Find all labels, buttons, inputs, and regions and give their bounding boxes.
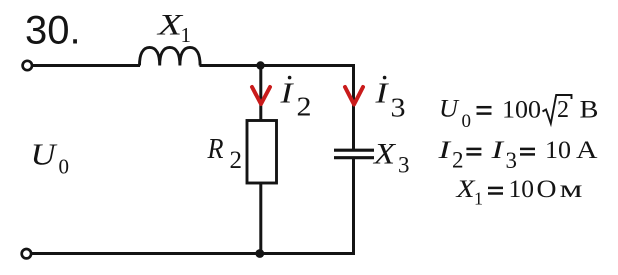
svg-text:I: I: [374, 78, 389, 110]
wire: node A down to resistor R2: [259, 66, 262, 122]
wire: resistor R2 to node B: [259, 183, 262, 254]
formula line 1: U0 = 100 sqrt(2) V: [439, 95, 599, 133]
capacitor X3 bottom plate: [334, 156, 374, 159]
svg-text:0: 0: [462, 111, 472, 132]
svg-text:R: R: [207, 133, 224, 165]
terminal top-left: [23, 61, 32, 70]
svg-text:3: 3: [398, 153, 410, 178]
svg-text:А: А: [576, 137, 598, 164]
svg-text:м: м: [560, 176, 583, 203]
svg-text:10: 10: [545, 137, 571, 164]
wire: capacitor to bottom wire: [352, 158, 355, 255]
formula line 3: X1 = 10 Ohm: [455, 176, 582, 209]
svg-text:U: U: [439, 96, 460, 123]
equals sign line1: [477, 106, 492, 109]
svg-text:2: 2: [297, 92, 312, 122]
svg-text:I: I: [279, 78, 294, 110]
node A junction dot: [256, 61, 264, 69]
svg-text:2: 2: [230, 147, 243, 174]
svg-text:U: U: [31, 137, 59, 172]
wire: top terminal to inductor: [33, 64, 141, 67]
radical sign: [543, 95, 572, 124]
current arrow I3: [345, 87, 363, 105]
svg-text:1: 1: [181, 23, 192, 47]
svg-text:О: О: [537, 176, 557, 203]
svg-text:В: В: [580, 97, 599, 124]
equals sign line2 a: [466, 148, 481, 151]
node B junction dot: [255, 249, 264, 258]
svg-text:1: 1: [474, 189, 483, 209]
svg-text:X: X: [373, 138, 397, 171]
current arrow I2: [252, 87, 270, 104]
terminal bottom-left: [22, 249, 31, 258]
capacitor X3 top plate: [334, 149, 374, 152]
svg-text:3: 3: [506, 148, 518, 173]
svg-text:3: 3: [391, 93, 406, 123]
formula line 2: I2 = I3 = 10 A: [437, 137, 597, 173]
bottom wire: [32, 252, 355, 255]
svg-text:10: 10: [509, 176, 535, 203]
svg-text:100: 100: [502, 95, 541, 124]
equals sign line2 b: [520, 148, 535, 151]
wire: right branch top (node A level down to capacitor): [352, 64, 355, 151]
inductor X1: [140, 47, 201, 65]
svg-text:2: 2: [557, 97, 569, 123]
resistor R2: [247, 121, 277, 184]
equals sign line3: [488, 187, 503, 190]
wire: inductor to node A: [200, 64, 263, 67]
svg-text:0: 0: [59, 155, 70, 179]
wire: node A to capacitor branch: [261, 64, 356, 67]
svg-text:2: 2: [452, 148, 464, 173]
svg-text:30.: 30.: [25, 9, 81, 53]
